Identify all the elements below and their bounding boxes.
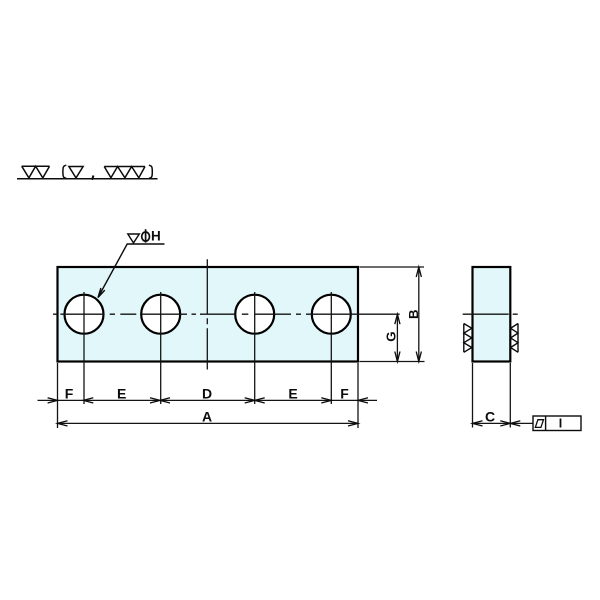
- vertical centerline hole 1: [83, 292, 85, 404]
- surface finish note: open parenthesis: [63, 165, 66, 178]
- svg-text:I: I: [559, 417, 562, 431]
- svg-text:E: E: [288, 386, 297, 402]
- feature control frame box: [533, 416, 581, 431]
- surface finish note: triple triangle symbol: [104, 167, 145, 178]
- side view right surface triangles: [511, 324, 518, 353]
- surface finish note: single triangle symbol: [69, 167, 83, 178]
- svg-text:H: H: [151, 229, 161, 244]
- phiH surface triangle: [128, 234, 140, 243]
- side view extension line right: [509, 363, 511, 428]
- dimension C line: [473, 422, 511, 424]
- extension line right edge: [357, 363, 359, 428]
- extension line B bottom: [360, 361, 425, 363]
- svg-text:G: G: [384, 331, 399, 341]
- hole 4: [312, 295, 351, 334]
- dimension B line: [418, 267, 420, 362]
- hole 2: [141, 295, 180, 334]
- leader from feature control frame: [510, 422, 533, 424]
- phiH leader line with arrow: [98, 244, 165, 298]
- svg-text:F: F: [65, 386, 74, 402]
- flatness symbol: [535, 420, 543, 428]
- extension line B top: [360, 266, 425, 268]
- middle vertical centerline: [206, 259, 208, 369]
- dimension G line: [396, 314, 398, 361]
- arrowheads row1: [48, 398, 368, 403]
- vertical centerline hole 4: [330, 292, 332, 404]
- hole 1: [65, 295, 104, 334]
- horizontal centerline: [53, 313, 400, 315]
- phiH label: [142, 229, 161, 244]
- surface finish note: close parenthesis: [149, 165, 152, 178]
- plate front view: [58, 267, 359, 362]
- side view left surface triangles: [464, 324, 472, 353]
- vertical centerline hole 3: [254, 292, 256, 404]
- svg-text:D: D: [202, 386, 212, 402]
- dimension A line: [58, 422, 359, 424]
- surface finish note: comma: [92, 176, 94, 180]
- svg-text:B: B: [406, 309, 421, 319]
- side view centerline: [463, 313, 518, 315]
- svg-text:A: A: [202, 409, 212, 425]
- side view extension line left: [472, 363, 474, 428]
- hole 3: [235, 295, 274, 334]
- svg-text:E: E: [117, 386, 126, 402]
- surface finish note: underline: [17, 178, 158, 180]
- extension line left edge: [57, 363, 59, 428]
- svg-text:F: F: [340, 386, 349, 402]
- vertical centerline hole 2: [160, 292, 162, 404]
- plate side view: [473, 267, 511, 362]
- dimension row F E D E F line: [38, 399, 378, 401]
- svg-text:C: C: [485, 409, 495, 425]
- surface finish note: double triangle symbol: [22, 166, 50, 178]
